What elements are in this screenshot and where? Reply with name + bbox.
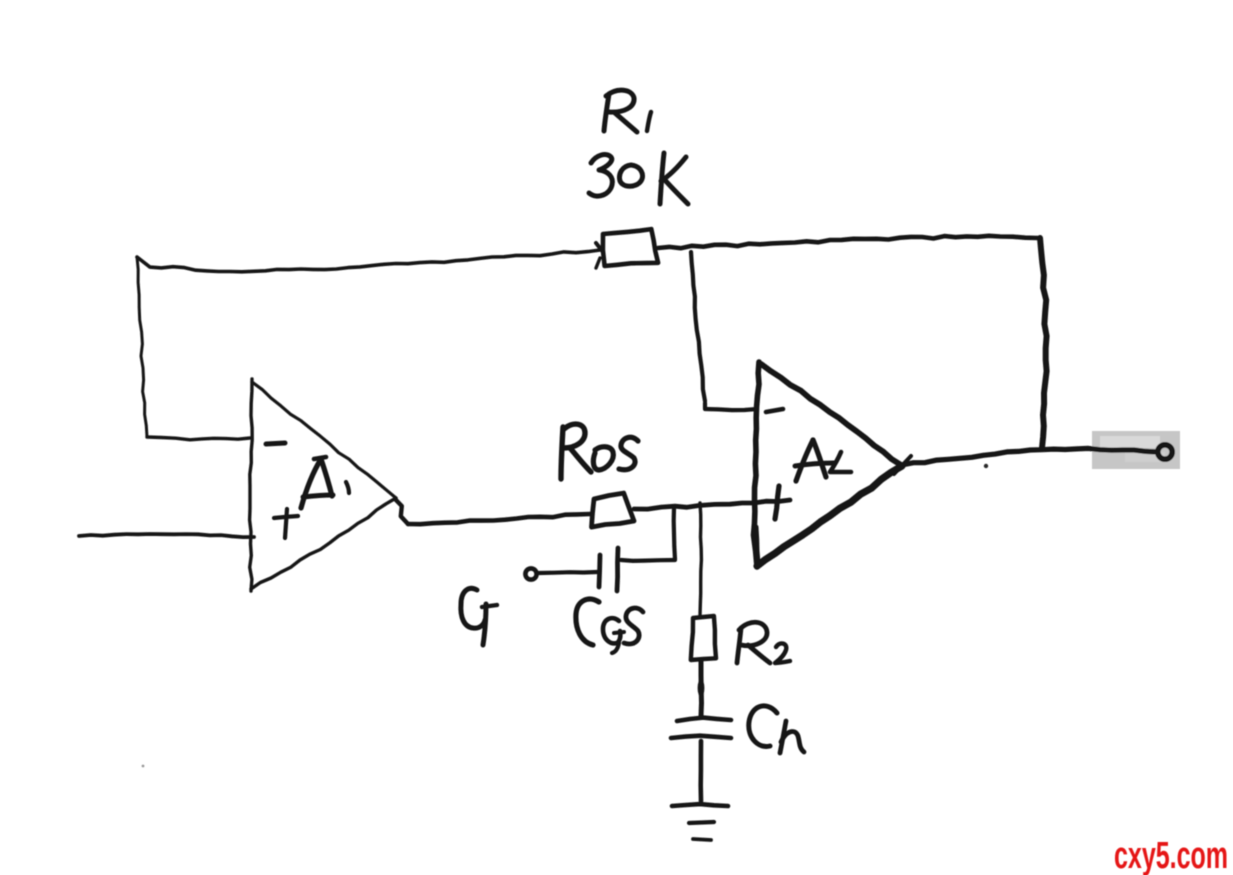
label CGS (576, 599, 643, 653)
wire A1 output to ROS (395, 499, 590, 524)
wire R1 right to feedback corner (658, 236, 1038, 248)
op-amp A2 (754, 362, 903, 567)
wire R2 to Ch (698, 661, 705, 716)
ground (672, 804, 728, 840)
wire ROS output to A2 non-inverting input (634, 500, 790, 509)
label Ch (749, 706, 804, 753)
terminal G (525, 568, 536, 579)
minus sign A1 (266, 443, 285, 444)
label R1 (604, 90, 651, 132)
plus sign A1 (274, 509, 298, 538)
op-amp A1 (250, 379, 396, 591)
label G (461, 588, 497, 645)
capacitor CGS (599, 548, 618, 591)
watermark cxy5.com (1114, 835, 1228, 875)
svg-text:cxy5.com: cxy5.com (1114, 835, 1228, 875)
wire feedback top-left loop (137, 250, 600, 440)
wire Ch to ground (698, 741, 703, 801)
label R2 (737, 622, 790, 663)
output terminal (1158, 445, 1172, 459)
wire junction stem to A2 inverting input (691, 252, 757, 410)
label A1 (301, 457, 349, 508)
label A2 (795, 440, 851, 481)
wire junction to R2 (700, 503, 701, 616)
label 30K (589, 153, 688, 204)
resistor R1 (596, 229, 658, 268)
resistor R2 (691, 616, 716, 660)
label ROS (561, 424, 638, 479)
plus sign A2 (775, 486, 779, 519)
resistor ROS (592, 493, 635, 527)
wire junction to CGS right plate (621, 508, 675, 561)
wire A1 non-inverting input (79, 534, 254, 537)
wire terminal G to CGS (539, 572, 597, 573)
wire feedback vertical right (1040, 238, 1047, 448)
minus sign A2 (766, 409, 783, 412)
capacitor Ch (671, 718, 731, 738)
wire A2 output (894, 448, 1157, 474)
